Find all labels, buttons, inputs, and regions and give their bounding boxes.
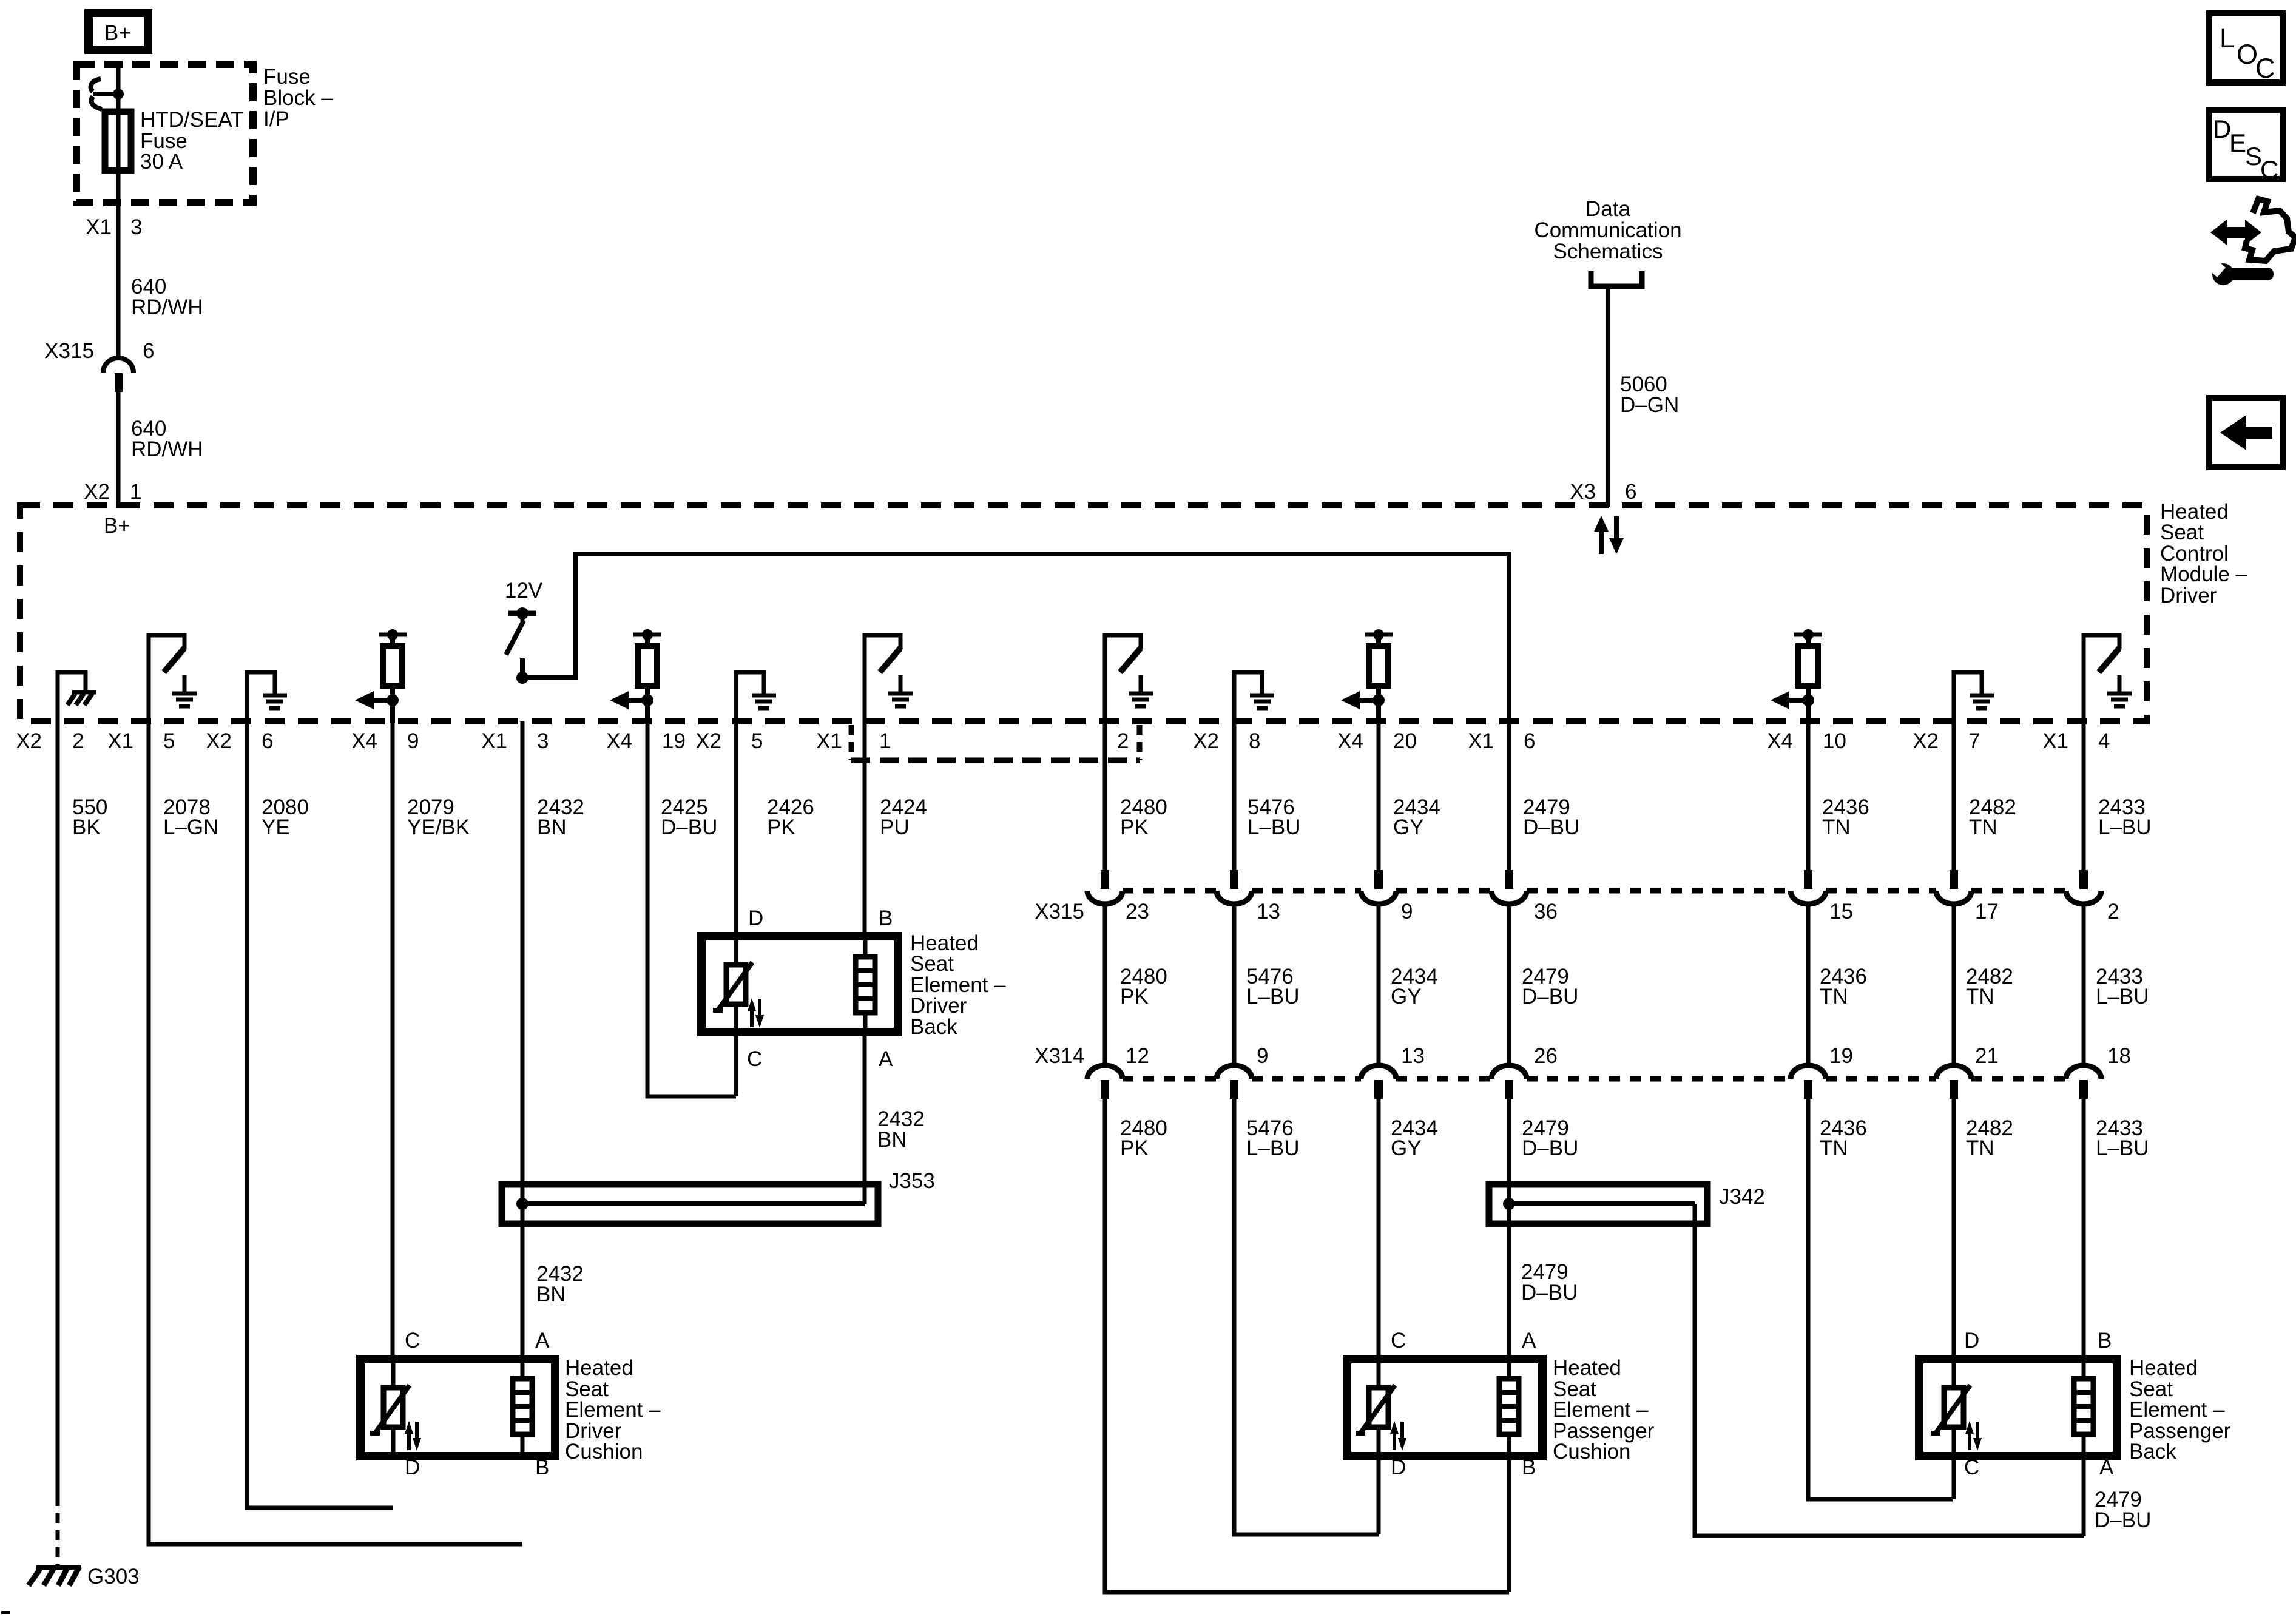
svg-text:D–BU: D–BU — [1522, 985, 1578, 1008]
svg-text:3: 3 — [537, 729, 549, 753]
svg-text:26: 26 — [1534, 1044, 1558, 1068]
svg-text:36: 36 — [1534, 900, 1558, 923]
svg-text:TN: TN — [1820, 985, 1848, 1008]
svg-text:13: 13 — [1401, 1044, 1425, 1068]
svg-text:21: 21 — [1975, 1044, 1999, 1068]
svg-text:Fuse: Fuse — [263, 65, 311, 89]
svg-text:BN: BN — [536, 1283, 566, 1306]
svg-text:L–BU: L–BU — [1246, 985, 1300, 1008]
svg-text:D–BU: D–BU — [1521, 1281, 1578, 1305]
svg-text:1: 1 — [879, 729, 891, 753]
svg-text:C: C — [1391, 1329, 1406, 1352]
svg-text:Back: Back — [2129, 1440, 2176, 1463]
svg-text:23: 23 — [1126, 900, 1149, 923]
svg-text:20: 20 — [1393, 729, 1417, 753]
svg-text:X2: X2 — [1193, 729, 1219, 753]
svg-text:12: 12 — [1126, 1044, 1149, 1068]
svg-text:6: 6 — [1524, 729, 1535, 753]
svg-text:GY: GY — [1391, 1136, 1422, 1160]
svg-text:L–BU: L–BU — [1248, 815, 1301, 839]
svg-text:TN: TN — [1822, 815, 1851, 839]
svg-text:J342: J342 — [1719, 1185, 1765, 1209]
svg-text:G303: G303 — [87, 1565, 140, 1588]
svg-text:D: D — [748, 906, 763, 930]
svg-text:D: D — [2213, 115, 2231, 143]
svg-text:C: C — [747, 1047, 762, 1071]
svg-text:Element –: Element – — [565, 1398, 661, 1422]
svg-text:Element –: Element – — [2129, 1398, 2225, 1422]
svg-text:X314: X314 — [1035, 1044, 1084, 1068]
svg-text:X2: X2 — [84, 480, 110, 504]
svg-text:X4: X4 — [351, 729, 377, 753]
svg-text:L–BU: L–BU — [1246, 1136, 1300, 1160]
svg-text:L–BU: L–BU — [2098, 815, 2152, 839]
svg-text:A: A — [2099, 1456, 2114, 1479]
svg-text:Cushion: Cushion — [1553, 1440, 1630, 1463]
svg-text:RD/WH: RD/WH — [131, 437, 203, 461]
svg-text:X1: X1 — [2042, 729, 2068, 753]
svg-text:Block –: Block – — [263, 86, 333, 110]
svg-text:D–BU: D–BU — [2095, 1508, 2151, 1532]
svg-text:Back: Back — [910, 1015, 957, 1039]
svg-text:L: L — [2220, 22, 2235, 53]
svg-text:Seat: Seat — [2160, 521, 2204, 544]
svg-text:YE/BK: YE/BK — [407, 815, 470, 839]
svg-text:X4: X4 — [606, 729, 632, 753]
svg-text:BN: BN — [877, 1128, 907, 1152]
svg-text:Driver: Driver — [2160, 584, 2217, 607]
svg-text:D: D — [405, 1456, 420, 1479]
svg-text:4: 4 — [2098, 729, 2110, 753]
svg-text:B+: B+ — [104, 21, 131, 45]
svg-text:X1: X1 — [86, 215, 112, 239]
svg-text:E: E — [2229, 129, 2246, 157]
svg-text:PK: PK — [1120, 985, 1149, 1008]
svg-text:6: 6 — [1625, 480, 1636, 504]
svg-text:J353: J353 — [889, 1169, 935, 1193]
svg-text:6: 6 — [262, 729, 273, 753]
svg-text:B: B — [535, 1456, 549, 1479]
svg-text:D–BU: D–BU — [661, 815, 717, 839]
svg-text:6: 6 — [143, 339, 154, 363]
svg-text:PK: PK — [767, 815, 795, 839]
svg-text:TN: TN — [1966, 985, 1994, 1008]
svg-text:YE: YE — [262, 815, 290, 839]
svg-text:HTD/SEAT: HTD/SEAT — [140, 108, 243, 132]
svg-text:D–BU: D–BU — [1523, 815, 1579, 839]
svg-text:PK: PK — [1120, 815, 1149, 839]
svg-text:X1: X1 — [481, 729, 507, 753]
svg-text:TN: TN — [1966, 1136, 1994, 1160]
svg-text:BK: BK — [72, 815, 101, 839]
svg-text:GY: GY — [1391, 985, 1422, 1008]
svg-text:L–BU: L–BU — [2096, 985, 2149, 1008]
svg-text:18: 18 — [2107, 1044, 2131, 1068]
svg-text:C: C — [405, 1329, 420, 1352]
svg-text:B: B — [879, 906, 893, 930]
svg-text:D–BU: D–BU — [1522, 1136, 1578, 1160]
svg-text:X2: X2 — [16, 729, 42, 753]
svg-text:2: 2 — [2107, 900, 2119, 923]
svg-text:13: 13 — [1257, 900, 1280, 923]
svg-text:30 A: 30 A — [140, 150, 183, 174]
svg-text:TN: TN — [1969, 815, 1997, 839]
svg-text:Data: Data — [1585, 197, 1630, 221]
svg-text:X2: X2 — [695, 729, 721, 753]
svg-text:9: 9 — [1401, 900, 1413, 923]
svg-text:Seat: Seat — [910, 952, 954, 976]
svg-text:X2: X2 — [206, 729, 232, 753]
svg-text:X315: X315 — [1035, 900, 1084, 923]
svg-text:X315: X315 — [44, 339, 94, 363]
svg-text:L–GN: L–GN — [163, 815, 218, 839]
svg-text:15: 15 — [1829, 900, 1853, 923]
svg-text:S: S — [2245, 142, 2262, 170]
svg-text:Heated: Heated — [2129, 1356, 2198, 1380]
svg-text:C: C — [2255, 53, 2275, 84]
svg-text:D–GN: D–GN — [1620, 393, 1679, 417]
svg-text:C: C — [1964, 1456, 1979, 1479]
svg-text:X2: X2 — [1913, 729, 1939, 753]
svg-text:X1: X1 — [1468, 729, 1494, 753]
svg-text:BN: BN — [537, 815, 567, 839]
svg-text:O: O — [2237, 39, 2258, 70]
svg-text:9: 9 — [407, 729, 419, 753]
svg-text:A: A — [879, 1047, 893, 1071]
svg-text:X4: X4 — [1767, 729, 1793, 753]
svg-text:A: A — [1522, 1329, 1536, 1352]
svg-text:2: 2 — [1117, 729, 1129, 753]
svg-text:Element –: Element – — [1553, 1398, 1649, 1422]
svg-text:PK: PK — [1120, 1136, 1149, 1160]
svg-text:B: B — [1522, 1456, 1536, 1479]
svg-text:Communication: Communication — [1534, 218, 1681, 242]
svg-text:L–BU: L–BU — [2096, 1136, 2149, 1160]
svg-text:17: 17 — [1975, 900, 1999, 923]
svg-text:Heated: Heated — [1553, 1356, 1621, 1380]
svg-text:D: D — [1964, 1329, 1979, 1352]
svg-text:C: C — [2260, 155, 2278, 184]
svg-text:Schematics: Schematics — [1553, 240, 1663, 263]
svg-text:B: B — [2098, 1329, 2112, 1352]
svg-text:I/P: I/P — [263, 107, 289, 131]
svg-text:1: 1 — [130, 480, 141, 504]
svg-text:B+: B+ — [104, 514, 130, 538]
svg-text:PU: PU — [880, 815, 910, 839]
svg-text:GY: GY — [1393, 815, 1424, 839]
svg-text:7: 7 — [1968, 729, 1980, 753]
svg-text:A: A — [535, 1329, 550, 1352]
svg-text:X1: X1 — [816, 729, 842, 753]
svg-text:12V: 12V — [505, 579, 543, 603]
svg-text:19: 19 — [662, 729, 686, 753]
svg-text:2: 2 — [72, 729, 84, 753]
svg-text:8: 8 — [1249, 729, 1260, 753]
svg-text:TN: TN — [1820, 1136, 1848, 1160]
svg-text:D: D — [1391, 1456, 1406, 1479]
svg-text:5: 5 — [163, 729, 175, 753]
svg-text:Module –: Module – — [2160, 562, 2248, 586]
svg-text:Driver: Driver — [910, 994, 967, 1018]
svg-text:X1: X1 — [107, 729, 133, 753]
svg-text:10: 10 — [1823, 729, 1846, 753]
svg-text:5: 5 — [751, 729, 763, 753]
svg-text:3: 3 — [130, 215, 142, 239]
svg-text:X4: X4 — [1337, 729, 1363, 753]
svg-text:19: 19 — [1829, 1044, 1853, 1068]
svg-text:9: 9 — [1257, 1044, 1268, 1068]
svg-text:X3: X3 — [1570, 480, 1596, 504]
svg-text:RD/WH: RD/WH — [131, 295, 203, 319]
svg-text:Cushion: Cushion — [565, 1440, 643, 1463]
svg-text:Heated: Heated — [565, 1356, 633, 1380]
